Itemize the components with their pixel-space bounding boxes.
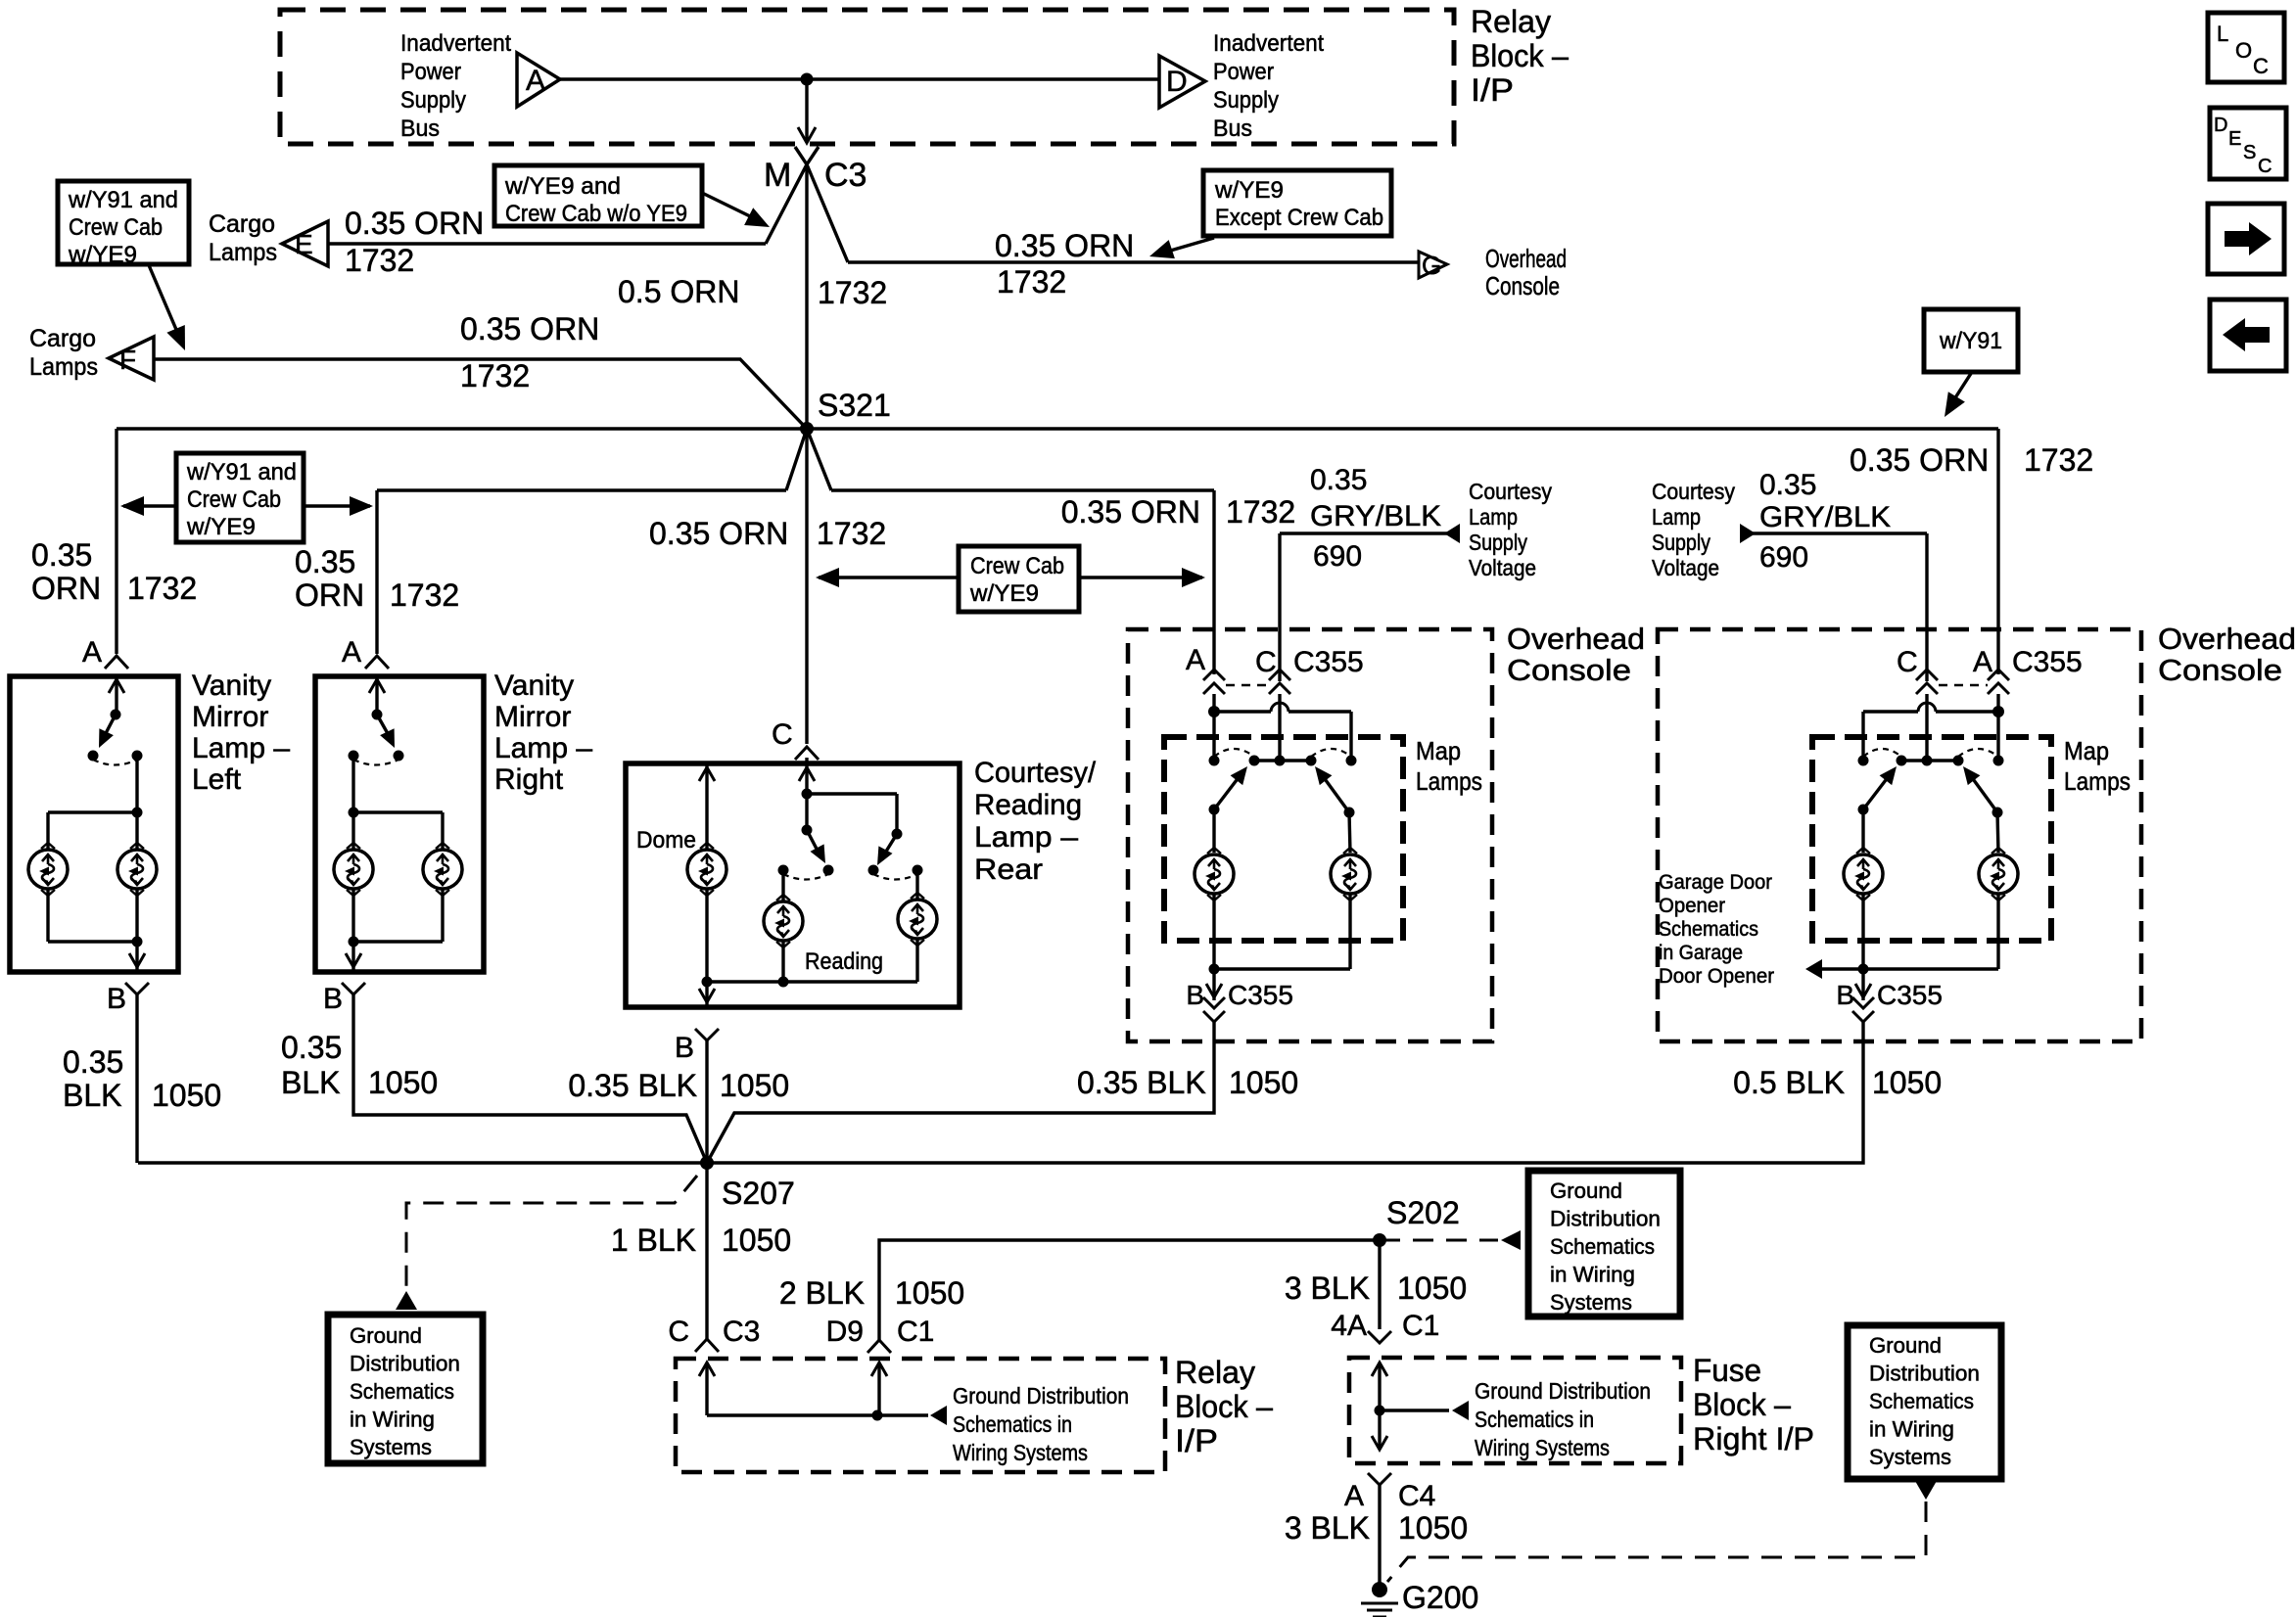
svg-text:I/P: I/P [1175, 1423, 1218, 1458]
right map lamp switch arm 2 [1992, 808, 2003, 818]
arrow from wYE9 box [702, 193, 750, 216]
svg-text:Map: Map [2064, 736, 2109, 765]
right console GRY wire [1753, 531, 1927, 534]
svg-text:C355: C355 [2012, 646, 2083, 678]
svg-text:Fuse: Fuse [1693, 1353, 1761, 1388]
vanity right feed wire [375, 490, 378, 654]
svg-text:A: A [1344, 1480, 1364, 1512]
left map lamp 2 [1331, 855, 1370, 894]
vanity right contacts [349, 751, 359, 762]
ground bus wire left [138, 1161, 707, 1164]
svg-text:Ground: Ground [1869, 1333, 1942, 1358]
main horizontal wire from S321 [117, 427, 1998, 430]
svg-text:1050: 1050 [722, 1223, 791, 1258]
courtesy left switch [802, 825, 813, 836]
svg-text:1050: 1050 [368, 1065, 438, 1100]
svg-text:0.35 BLK: 0.35 BLK [568, 1068, 697, 1103]
connector B courtesy [695, 1029, 719, 1040]
wY91 box right [1924, 309, 2018, 372]
svg-text:0.35 ORN: 0.35 ORN [1061, 494, 1200, 530]
svg-text:Crew Cab w/o YE9: Crew Cab w/o YE9 [505, 201, 687, 227]
arrow from wY91 right box [1954, 372, 1972, 399]
splice S321 [800, 422, 814, 436]
svg-text:in Wiring: in Wiring [1550, 1263, 1635, 1287]
left map lamp switch arm 2 [1344, 808, 1355, 818]
right map lamp 1 wire [1861, 809, 1864, 853]
right overhead console dashed box [1658, 629, 2141, 1041]
svg-text:Vanity: Vanity [494, 670, 574, 702]
nav box LOC [2208, 13, 2284, 82]
svg-text:C: C [772, 718, 793, 751]
vanity left bottom wiring [46, 889, 49, 942]
svg-text:Console: Console [1485, 271, 1560, 300]
svg-text:Wiring Systems: Wiring Systems [953, 1440, 1088, 1465]
triangle below right ground box [1915, 1481, 1937, 1500]
svg-text:Schematics: Schematics [1659, 918, 1758, 941]
svg-text:1732: 1732 [345, 243, 414, 278]
svg-text:S: S [2243, 142, 2256, 163]
svg-text:w/YE9: w/YE9 [969, 580, 1039, 607]
svg-text:S321: S321 [818, 388, 891, 423]
svg-text:E: E [2228, 128, 2241, 150]
svg-text:F: F [119, 345, 136, 375]
svg-text:0.35: 0.35 [63, 1044, 123, 1080]
dashed reference from S207 [406, 1176, 697, 1288]
svg-text:1050: 1050 [720, 1068, 789, 1103]
wire A to D [560, 77, 1159, 80]
svg-text:Right: Right [494, 763, 564, 796]
svg-text:C1: C1 [1402, 1310, 1439, 1342]
relay block bottom dashed box [676, 1359, 1165, 1472]
svg-text:Lamps: Lamps [29, 353, 98, 381]
svg-text:Systems: Systems [1550, 1290, 1632, 1315]
svg-text:Mirror: Mirror [192, 701, 268, 733]
svg-text:3 BLK: 3 BLK [1285, 1510, 1370, 1546]
connector A C355 left console [1203, 670, 1225, 680]
svg-text:Relay: Relay [1175, 1355, 1255, 1390]
svg-text:w/YE9 and: w/YE9 and [504, 173, 621, 200]
vanity left entry arrow [115, 676, 117, 715]
reading lamp left [764, 901, 803, 941]
svg-text:Mirror: Mirror [494, 701, 571, 733]
vanity right lamp 2 [423, 850, 462, 889]
horizontal branch wire right [831, 488, 1214, 491]
svg-text:Except Crew Cab: Except Crew Cab [1215, 205, 1383, 231]
svg-text:Console: Console [2158, 653, 2282, 687]
svg-text:Lamps: Lamps [1416, 766, 1482, 796]
fuse block dashed box [1349, 1358, 1681, 1463]
left map lamp 2 wire [1349, 812, 1350, 853]
connector dashed link right console [1939, 684, 1988, 687]
svg-text:w/Y91 and: w/Y91 and [186, 459, 297, 485]
svg-text:Bus: Bus [400, 115, 440, 142]
vanity mirror lamp left box [10, 676, 178, 972]
svg-text:1 BLK: 1 BLK [611, 1223, 696, 1258]
svg-text:A: A [526, 65, 545, 97]
splice S207 [700, 1156, 714, 1170]
right console B wire [707, 1022, 1863, 1163]
svg-text:Crew Cab: Crew Cab [970, 553, 1064, 579]
svg-text:C: C [668, 1316, 689, 1348]
svg-text:3 BLK: 3 BLK [1285, 1270, 1370, 1306]
svg-text:C: C [2258, 156, 2272, 177]
svg-text:Inadvertent: Inadvertent [400, 30, 511, 57]
svg-text:1732: 1732 [127, 571, 197, 606]
svg-text:Lamp –: Lamp – [192, 732, 290, 764]
svg-text:0.35: 0.35 [31, 537, 92, 573]
vanity right switch pivot [372, 710, 383, 720]
left map lamp 1 wire [1212, 809, 1215, 853]
svg-text:w/YE9: w/YE9 [186, 514, 256, 540]
left console feed junction [1208, 706, 1220, 717]
svg-text:GRY/BLK: GRY/BLK [1310, 500, 1441, 532]
svg-text:C1: C1 [897, 1316, 934, 1348]
left console A wire [1212, 694, 1215, 712]
svg-text:A: A [82, 636, 102, 669]
connector C C355 left console [1269, 670, 1290, 680]
svg-text:0.35 ORN: 0.35 ORN [1850, 442, 1989, 478]
reading lamp right wire [915, 870, 918, 900]
svg-text:Supply: Supply [1652, 530, 1710, 555]
courtesy exit arrow [705, 982, 708, 1005]
svg-text:w/Y91: w/Y91 [1939, 328, 2002, 354]
junction on inadvertent bus wire [801, 73, 814, 86]
right map lamp 2 wire [1997, 812, 1998, 853]
svg-text:1732: 1732 [997, 264, 1066, 300]
svg-text:0.35 ORN: 0.35 ORN [649, 516, 788, 551]
svg-text:A: A [1973, 646, 1992, 678]
garage door opener arrow [1822, 967, 1863, 970]
svg-text:w/YE9: w/YE9 [68, 242, 137, 268]
wire down to C3 [805, 79, 808, 140]
left console crossover [1214, 710, 1271, 713]
svg-text:B: B [675, 1032, 694, 1064]
wire M to S321 [805, 164, 808, 429]
svg-text:C355: C355 [1877, 980, 1943, 1010]
svg-text:Opener: Opener [1659, 895, 1725, 917]
svg-text:0.35: 0.35 [1310, 464, 1367, 496]
svg-text:BLK: BLK [63, 1078, 121, 1113]
svg-text:Crew Cab: Crew Cab [69, 214, 163, 241]
wYE9 except crew cab box [1203, 170, 1391, 236]
svg-text:1732: 1732 [818, 275, 887, 310]
double arrow left [123, 504, 176, 507]
svg-text:0.5 ORN: 0.5 ORN [618, 274, 739, 309]
svg-text:Systems: Systems [1869, 1445, 1951, 1469]
courtesy reading lamp box [626, 763, 960, 1007]
svg-text:Bus: Bus [1213, 115, 1252, 142]
svg-text:Relay: Relay [1471, 4, 1551, 39]
map lamps box right [1812, 737, 2051, 941]
left map lamp 1 [1195, 855, 1234, 894]
triangle connector E [282, 221, 328, 266]
svg-text:Reading: Reading [974, 789, 1082, 821]
right map lamp switch arm 1 [1858, 805, 1869, 815]
right map switch row [1858, 756, 1869, 766]
svg-text:C355: C355 [1293, 646, 1364, 678]
svg-text:Lamp: Lamp [1469, 504, 1518, 530]
courtesy right switch [892, 829, 903, 840]
left map lamps bottom [1212, 895, 1215, 969]
svg-text:1050: 1050 [1872, 1065, 1942, 1100]
svg-text:Crew Cab: Crew Cab [187, 486, 281, 513]
horizontal branch wire left [377, 488, 786, 491]
svg-text:Inadvertent: Inadvertent [1213, 30, 1324, 57]
svg-text:Overhead: Overhead [2158, 622, 2296, 656]
svg-text:A: A [1186, 644, 1205, 676]
svg-text:B: B [107, 983, 126, 1015]
svg-text:Systems: Systems [350, 1435, 432, 1459]
vanity right B wire [353, 994, 707, 1163]
svg-text:Schematics: Schematics [1550, 1234, 1655, 1259]
svg-text:Cargo: Cargo [209, 210, 275, 238]
svg-text:0.35: 0.35 [1759, 469, 1816, 501]
wire S321 to courtesy C [805, 429, 808, 744]
svg-text:1050: 1050 [895, 1275, 964, 1311]
svg-text:Schematics: Schematics [1869, 1389, 1974, 1413]
connector B vanity right [342, 983, 365, 994]
svg-text:ORN: ORN [295, 577, 364, 613]
svg-text:Courtesy: Courtesy [1469, 479, 1552, 504]
svg-text:B: B [1186, 980, 1204, 1010]
svg-text:Schematics in: Schematics in [953, 1411, 1072, 1437]
svg-text:in Wiring: in Wiring [350, 1408, 435, 1432]
dome entry arrow [705, 763, 708, 850]
svg-text:Dome: Dome [636, 827, 696, 854]
wY91 crew cab box top left [58, 181, 189, 264]
svg-text:0.35 ORN: 0.35 ORN [345, 206, 484, 241]
svg-text:1050: 1050 [1397, 1270, 1467, 1306]
connector B C355 left console [1203, 997, 1225, 1008]
svg-text:690: 690 [1759, 541, 1808, 574]
left console GRY wire [1280, 531, 1447, 534]
relay block bottom internals [699, 1363, 715, 1376]
console A feed wire [1212, 490, 1215, 674]
svg-text:Supply: Supply [400, 87, 466, 114]
svg-text:Lamps: Lamps [209, 239, 277, 266]
svg-text:Power: Power [1213, 59, 1274, 85]
svg-text:A: A [342, 636, 361, 669]
svg-text:S207: S207 [722, 1176, 795, 1211]
svg-text:Schematics in: Schematics in [1475, 1407, 1594, 1432]
right console crossover [1936, 710, 1998, 713]
svg-text:D: D [1166, 66, 1188, 98]
svg-text:G200: G200 [1402, 1580, 1478, 1615]
vanity left contacts [88, 751, 99, 762]
vanity left lamp 2 [117, 850, 157, 889]
vanity left switch arm [104, 715, 116, 737]
ground G200 [1372, 1582, 1387, 1597]
svg-text:0.35: 0.35 [295, 544, 355, 579]
relay block I/P dashed box [280, 10, 1454, 144]
right console C wire [1925, 533, 1928, 681]
svg-text:C355: C355 [1228, 980, 1293, 1010]
svg-text:1732: 1732 [390, 577, 459, 613]
dome lamp [687, 850, 726, 889]
svg-text:1732: 1732 [1226, 494, 1295, 530]
svg-text:Wiring Systems: Wiring Systems [1475, 1435, 1610, 1460]
left console B arrow [1212, 969, 1215, 1000]
svg-text:Supply: Supply [1213, 87, 1279, 114]
connector dashed link left console [1226, 684, 1269, 687]
svg-text:Lamp: Lamp [1652, 504, 1701, 530]
triangle connector A [517, 53, 560, 107]
svg-text:Block –: Block – [1471, 38, 1569, 73]
svg-text:690: 690 [1313, 540, 1362, 573]
svg-text:Door Opener: Door Opener [1659, 965, 1774, 988]
right map lamp 2 [1979, 855, 2018, 894]
connector A vanity right [365, 656, 389, 669]
vanity right bottom wiring [441, 889, 444, 942]
svg-text:Overhead: Overhead [1507, 622, 1645, 656]
svg-text:Map: Map [1416, 736, 1461, 765]
svg-text:Voltage: Voltage [1469, 555, 1536, 580]
left map switch row [1209, 756, 1220, 766]
connector C courtesy [795, 747, 819, 760]
svg-text:1732: 1732 [460, 358, 530, 393]
vanity mirror lamp right box [315, 676, 484, 972]
svg-text:C: C [1897, 646, 1918, 678]
wire to G200 [1378, 1485, 1381, 1587]
svg-text:Console: Console [1507, 653, 1631, 687]
vanity left switch pivot [111, 710, 121, 720]
map lamps box left [1164, 737, 1403, 941]
svg-text:w/YE9: w/YE9 [1214, 177, 1284, 204]
triangle connector D [1159, 56, 1205, 108]
svg-text:Reading: Reading [805, 948, 883, 975]
wire to cargo lamps E [328, 242, 766, 245]
double arrow center [819, 576, 959, 578]
vanity right wiring [351, 756, 354, 850]
svg-text:C4: C4 [1398, 1480, 1435, 1512]
svg-text:0.5 BLK: 0.5 BLK [1733, 1065, 1845, 1100]
left console C wire [1278, 533, 1281, 681]
left overhead console dashed box [1128, 629, 1492, 1041]
wire S202 down [1378, 1240, 1381, 1329]
svg-text:Ground: Ground [1550, 1178, 1622, 1203]
svg-text:Schematics: Schematics [350, 1379, 454, 1404]
svg-text:E: E [295, 229, 313, 259]
svg-text:0.35 ORN: 0.35 ORN [995, 228, 1134, 263]
svg-text:Right I/P: Right I/P [1693, 1421, 1814, 1456]
connector C C355 right console [1916, 670, 1938, 680]
svg-text:Ground: Ground [350, 1323, 422, 1348]
svg-text:1050: 1050 [1398, 1510, 1468, 1546]
crew cab wYE9 box center [959, 546, 1079, 612]
svg-text:C: C [1255, 646, 1277, 678]
svg-text:Courtesy: Courtesy [1652, 479, 1735, 504]
svg-text:BLK: BLK [281, 1065, 340, 1100]
svg-text:2 BLK: 2 BLK [779, 1275, 865, 1311]
wire F to S321 [154, 359, 807, 429]
ground distribution box right of S202 [1528, 1171, 1680, 1317]
svg-text:Garage Door: Garage Door [1659, 871, 1772, 894]
svg-text:1050: 1050 [1229, 1065, 1298, 1100]
nav box left arrow [2210, 300, 2286, 371]
svg-text:in Garage: in Garage [1659, 942, 1743, 964]
svg-text:L: L [2217, 22, 2228, 46]
connector 4A C1 [1368, 1331, 1391, 1343]
svg-text:I/P: I/P [1471, 72, 1514, 108]
right map lamp 1 [1844, 855, 1883, 894]
vanity left wiring [135, 756, 138, 850]
right console feed junction [1992, 706, 2004, 717]
svg-text:Power: Power [400, 59, 461, 85]
svg-text:GRY/BLK: GRY/BLK [1759, 501, 1891, 533]
svg-text:0.35 BLK: 0.35 BLK [1077, 1065, 1206, 1100]
arrow from wY91 box [149, 265, 177, 332]
connector C C3 [695, 1339, 719, 1352]
svg-text:Courtesy/: Courtesy/ [974, 757, 1097, 789]
reading lamp left wire [781, 870, 784, 901]
svg-text:in Wiring: in Wiring [1869, 1417, 1954, 1442]
ground distribution box bottom left [328, 1315, 483, 1463]
right console A wire [1996, 429, 1999, 674]
svg-text:Cargo: Cargo [29, 325, 96, 352]
svg-text:Ground Distribution: Ground Distribution [953, 1383, 1129, 1409]
triangle connector F [109, 337, 154, 380]
svg-text:Lamp –: Lamp – [494, 732, 592, 764]
connector B vanity left [125, 983, 149, 994]
vanity right switch arm [377, 715, 390, 737]
svg-text:Vanity: Vanity [192, 670, 271, 702]
svg-text:Ground Distribution: Ground Distribution [1475, 1378, 1651, 1404]
dashed reference from S202 [1380, 1239, 1498, 1242]
connector D9 C1 [867, 1340, 891, 1353]
svg-text:M: M [764, 157, 791, 194]
svg-text:D9: D9 [826, 1316, 864, 1348]
vanity right entry arrow [375, 676, 378, 715]
svg-text:0.35 ORN: 0.35 ORN [460, 311, 599, 346]
vanity left exit arrow [135, 942, 138, 970]
ground distribution box bottom right [1848, 1325, 2001, 1479]
right console B arrow [1861, 969, 1864, 1000]
2 BLK wire [879, 1240, 1380, 1340]
wY91 crew cab box mid left [176, 453, 304, 542]
connector B C355 right console [1852, 997, 1874, 1008]
svg-text:S202: S202 [1386, 1195, 1460, 1230]
svg-text:Block –: Block – [1693, 1387, 1791, 1422]
svg-text:C3: C3 [723, 1316, 760, 1348]
left map lamp switch arm 1 [1209, 805, 1220, 815]
svg-text:Rear: Rear [974, 854, 1043, 886]
svg-text:ORN: ORN [31, 571, 101, 606]
svg-text:Supply: Supply [1469, 530, 1527, 555]
branch diagonals at S321 [786, 429, 807, 490]
svg-text:w/Y91 and: w/Y91 and [68, 187, 178, 213]
courtesy entry arrow [805, 763, 808, 794]
svg-text:G: G [1422, 251, 1441, 280]
connector C3 pin M symbol [795, 147, 848, 262]
vanity left lamp 1 [28, 850, 68, 889]
right map lamps bottom [1861, 895, 1864, 969]
left console B wire [707, 1022, 1214, 1163]
svg-text:Overhead: Overhead [1485, 244, 1567, 273]
vanity right lamp 1 [334, 850, 373, 889]
svg-text:B: B [1836, 980, 1854, 1010]
vanity right exit arrow [351, 942, 354, 970]
wYE9 and crew cab wo YE9 box [494, 165, 702, 226]
triangle connector G [1419, 252, 1447, 278]
svg-text:Lamp –: Lamp – [974, 821, 1078, 854]
svg-text:B: B [323, 983, 343, 1015]
connector A C355 right console [1988, 670, 2009, 680]
svg-text:Lamps: Lamps [2064, 766, 2131, 796]
vanity left feed wire [115, 429, 117, 654]
svg-text:D: D [2214, 115, 2227, 136]
svg-text:Distribution: Distribution [1869, 1362, 1980, 1386]
splice S202 [1373, 1233, 1386, 1247]
